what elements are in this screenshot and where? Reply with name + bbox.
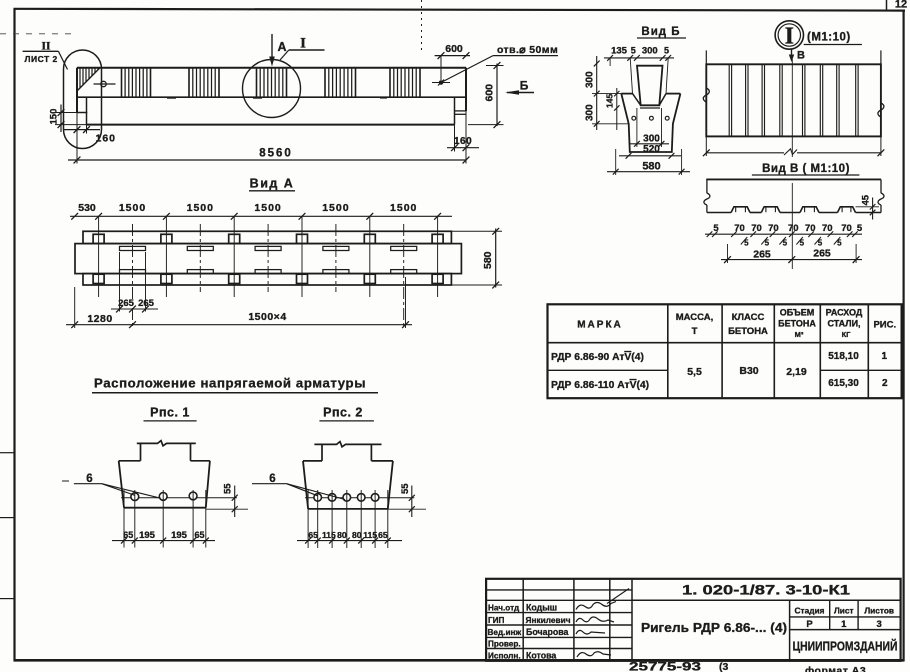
plan centerlines at fixture positions [99, 216, 438, 297]
slot pair 5 in plan [391, 246, 417, 273]
svg-text:115: 115 [322, 530, 336, 540]
fold mark dotted top middle [421, 0, 423, 52]
svg-text:1500: 1500 [322, 202, 349, 214]
svg-text:150: 150 [49, 109, 60, 125]
svg-text:I: I [785, 24, 794, 50]
svg-text:45: 45 [861, 194, 872, 205]
Rps.1 prestressing bars (3) [121, 492, 237, 501]
svg-text:5: 5 [857, 223, 863, 234]
slot pair 4 in plan [323, 246, 349, 273]
svg-text:70: 70 [768, 223, 779, 234]
svg-text:Провер.: Провер. [488, 639, 521, 648]
view arrow V (В) downward [789, 49, 805, 62]
svg-text:195: 195 [171, 530, 188, 541]
svg-text:В: В [797, 50, 805, 62]
svg-text:ЦНИИПРОМЗДАНИЙ: ЦНИИПРОМЗДАНИЙ [793, 639, 898, 654]
svg-text:12: 12 [895, 0, 907, 11]
dimension 160 at left end [63, 113, 116, 164]
svg-text:1: 1 [841, 619, 847, 630]
svg-text:1500×4: 1500×4 [248, 311, 286, 323]
svg-text:70: 70 [822, 223, 833, 234]
svg-text:195: 195 [139, 530, 156, 541]
svg-text:300: 300 [584, 71, 595, 88]
svg-text:1. 020-1/87. 3-10-К1: 1. 020-1/87. 3-10-К1 [682, 583, 851, 598]
embedded plate pair 3 (plan squares) [229, 234, 240, 283]
svg-text:5: 5 [713, 223, 719, 234]
svg-text:2: 2 [882, 378, 888, 389]
plan centerlines at slot positions [133, 224, 404, 328]
svg-text:265: 265 [118, 298, 135, 309]
Rps.1 section outline [119, 441, 210, 508]
svg-text:Расположение напрягаемой арм: Расположение напрягаемой арматуры [94, 376, 366, 391]
Rps.2 leader label 6 [252, 473, 345, 500]
corrugated key profile [707, 207, 881, 213]
svg-text:БЕТОНА: БЕТОНА [778, 319, 816, 329]
view B bottom dimension 300 [629, 108, 669, 147]
svg-text:Янкилевич: Янкилевич [526, 615, 571, 625]
svg-text:Рпс. 2: Рпс. 2 [323, 406, 363, 420]
svg-text:Исполн.: Исполн. [488, 651, 521, 660]
title block right grid [632, 600, 901, 661]
svg-text:5: 5 [664, 46, 669, 56]
svg-text:580: 580 [482, 251, 494, 269]
break marks on ribbed view edges [703, 88, 884, 117]
svg-text:РДР 6.86-90 АтV(4): РДР 6.86-90 АтV(4) [551, 352, 644, 363]
svg-text:600: 600 [445, 43, 463, 55]
svg-text:формат А3: формат А3 [805, 665, 866, 672]
svg-text:300: 300 [584, 104, 595, 121]
svg-text:5,5: 5,5 [687, 366, 702, 378]
hatch band at left end (triangle) [77, 68, 100, 91]
profile dimensions 5 70x7 5 [705, 223, 863, 237]
dimension 600 (hole to end) [435, 43, 470, 80]
svg-text:Б: Б [520, 79, 529, 93]
Rps.1 dimension 55 [206, 483, 248, 517]
Rps.2 dimension 55 [388, 483, 426, 517]
hatch band 2 on elevation [122, 68, 151, 97]
view B inner dimension 145 [605, 88, 620, 130]
svg-text:265: 265 [753, 248, 771, 260]
svg-text:А: А [277, 40, 286, 54]
svg-text:СТАЛИ,: СТАЛИ, [827, 319, 860, 329]
embedded plate pair 4 (plan squares) [297, 234, 308, 283]
dimension 265 265 under plan [111, 252, 158, 312]
svg-text:5: 5 [783, 239, 788, 248]
svg-text:160: 160 [454, 136, 472, 147]
svg-text:6: 6 [86, 473, 92, 485]
archive number below frame [629, 661, 866, 672]
svg-text:1280: 1280 [87, 313, 112, 325]
plan bottom flange [83, 274, 451, 285]
svg-text:ГИП: ГИП [488, 616, 505, 625]
stage sheet columns [795, 606, 894, 631]
svg-text:В30: В30 [739, 365, 758, 377]
svg-text:265: 265 [138, 298, 155, 309]
specification table grid [548, 304, 902, 398]
view V title [752, 163, 860, 175]
svg-text:Вид В ( М1:10): Вид В ( М1:10) [762, 163, 850, 175]
svg-text:65: 65 [123, 530, 133, 540]
svg-text:1500: 1500 [390, 202, 417, 214]
view B anchor holes (3 circles) [632, 116, 669, 120]
svg-text:отв.⌀ 50мм: отв.⌀ 50мм [497, 44, 558, 56]
svg-text:80: 80 [352, 530, 362, 540]
svg-text:518,10: 518,10 [828, 351, 859, 362]
svg-text:580: 580 [642, 160, 660, 172]
svg-text:70: 70 [751, 223, 762, 234]
svg-text:РДР 6.86-110 АтV(4): РДР 6.86-110 АтV(4) [551, 380, 649, 391]
svg-text:МАРКА: МАРКА [577, 320, 623, 331]
section arrow A with detail mark I [269, 34, 324, 67]
view B ledges and lower block [621, 94, 680, 152]
svg-text:Лист: Лист [834, 606, 854, 616]
profile right edge with break [878, 179, 884, 212]
svg-text:25775-93: 25775-93 [629, 662, 701, 672]
svg-text:Котова: Котова [526, 650, 556, 660]
svg-text:300: 300 [643, 133, 660, 144]
slot pair 3 in plan [255, 246, 281, 273]
svg-text:ЛИСТ 2: ЛИСТ 2 [25, 54, 58, 64]
svg-text:70: 70 [841, 223, 852, 234]
dimension 580 plan width [451, 228, 502, 289]
hatch band 6 on elevation [390, 68, 420, 97]
svg-text:5: 5 [765, 239, 770, 248]
svg-text:I: I [300, 36, 306, 52]
profile dimensions 265 265 [721, 244, 862, 263]
svg-text:5: 5 [744, 239, 749, 248]
svg-text:265: 265 [813, 248, 831, 260]
view B dimension 580 [607, 149, 690, 175]
svg-text:БЕТОНА: БЕТОНА [728, 326, 768, 337]
detail label II / LIST 2 [23, 41, 68, 70]
ribbed top view rectangle [706, 50, 881, 136]
profile left edge with break [704, 179, 710, 212]
Rps.2 prestressing bars (5) [305, 494, 414, 502]
svg-text:65: 65 [378, 530, 388, 540]
svg-text:2,19: 2,19 [786, 366, 807, 378]
view B left dimension 300/300 [584, 56, 628, 130]
view arrow B (Б) [505, 79, 534, 95]
embedded plate pair 5 (plan squares) [364, 234, 375, 283]
slot pair 1 in plan [120, 246, 146, 273]
svg-text:80: 80 [337, 530, 347, 540]
hatch band 4 on elevation [257, 68, 287, 97]
profile top line [706, 178, 881, 180]
svg-text:Стадия: Стадия [795, 606, 825, 616]
hatch band 3 on elevation [189, 68, 219, 97]
embedded plate pair 6 (plan squares) [432, 234, 443, 283]
Rps.1 leader label 6 [62, 473, 161, 498]
table steel values [828, 351, 888, 389]
svg-text:Нач.отд: Нач.отд [488, 604, 520, 613]
title block roles column [488, 604, 522, 661]
title block names column [526, 603, 571, 661]
svg-text:(3: (3 [719, 661, 728, 672]
svg-text:65: 65 [308, 530, 318, 540]
svg-text:70: 70 [805, 223, 816, 234]
svg-text:Ригель РДР 6.86-... (4): Ригель РДР 6.86-... (4) [641, 620, 787, 635]
svg-text:РАСХОД: РАСХОД [826, 308, 863, 318]
svg-text:Р: Р [806, 619, 813, 630]
svg-text:1: 1 [882, 351, 888, 362]
detail mark I double circle [775, 21, 803, 50]
svg-text:55: 55 [223, 483, 234, 494]
svg-text:3: 3 [877, 619, 882, 630]
svg-text:Т: Т [692, 326, 698, 337]
svg-text:МАССА,: МАССА, [676, 312, 714, 323]
svg-text:1500: 1500 [187, 202, 214, 214]
svg-text:5: 5 [800, 239, 805, 248]
plan web outline [75, 244, 461, 274]
title block left grid [486, 579, 632, 661]
svg-text:(М1:10): (М1:10) [807, 32, 851, 44]
svg-text:Бочарова: Бочарова [526, 627, 569, 637]
slope marks 1:5 [741, 237, 842, 248]
svg-text:М³: М³ [795, 330, 804, 339]
svg-text:5: 5 [818, 239, 823, 248]
svg-text:70: 70 [734, 223, 745, 234]
svg-text:Кодыш: Кодыш [526, 603, 557, 613]
embedded plate pair 2 (plan squares) [161, 234, 172, 283]
rib lines [729, 64, 858, 136]
svg-text:КЛАСС: КЛАСС [732, 312, 765, 323]
view B top dimensions 135 5 300 5 [604, 46, 674, 94]
view B stem (upper trapezoid) [637, 66, 663, 108]
detail circle mid-span [243, 60, 301, 118]
svg-text:55: 55 [400, 483, 411, 494]
svg-text:РИС.: РИС. [873, 320, 896, 331]
svg-text:145: 145 [605, 94, 615, 108]
profile dimension 45 [856, 194, 880, 219]
title block outer frame [486, 579, 900, 661]
svg-text:5: 5 [631, 46, 636, 56]
svg-text:70: 70 [788, 223, 799, 234]
hole (otv d50) dot and leader [432, 44, 558, 86]
svg-text:135: 135 [611, 46, 628, 57]
detail oval (capsule) at left end [64, 50, 102, 149]
svg-text:Вид А: Вид А [250, 177, 295, 191]
Rps.2 bottom dimensions 65 115 80 80 115 65 [297, 490, 402, 548]
svg-text:Листов: Листов [864, 606, 894, 616]
hole symbol at left end [94, 81, 116, 86]
dimension 160 at right end [447, 111, 479, 163]
heading: raspolozhenie napryagaemoy armatury [92, 376, 378, 393]
Rps.2 title [319, 406, 374, 421]
bottom dimension line with break under ribbed view [703, 136, 884, 156]
dimension 8560 overall [68, 148, 469, 164]
svg-text:520: 520 [643, 144, 660, 155]
svg-text:5: 5 [837, 239, 842, 248]
girder elevation outline [77, 68, 467, 125]
view B title [637, 26, 686, 38]
dimensions 1280 and 1500x4 [66, 277, 412, 328]
svg-text:600: 600 [484, 84, 496, 102]
dimension 600 vertical (beam height) [468, 62, 504, 128]
view B dimension 520 [619, 144, 681, 159]
svg-text:6: 6 [269, 473, 275, 485]
Rps.1 title [144, 406, 197, 421]
svg-text:Вед.инж: Вед.инж [488, 628, 522, 637]
svg-text:115: 115 [363, 530, 377, 540]
fold marks on left margin [0, 34, 72, 599]
svg-text:Вид Б: Вид Б [641, 26, 680, 38]
svg-text:8560: 8560 [259, 148, 293, 160]
stirrup marks on mid line [167, 96, 387, 98]
svg-text:ОБЪЕМ: ОБЪЕМ [780, 308, 814, 318]
scale label (M1:10) [804, 32, 862, 45]
Rps.2 section outline [303, 442, 393, 509]
svg-text:Рпс. 1: Рпс. 1 [150, 406, 190, 420]
Rps.1 bottom dimensions 65 195 195 65 [112, 490, 215, 548]
svg-text:300: 300 [642, 46, 658, 57]
table merged values [687, 365, 807, 378]
table headers [577, 308, 896, 340]
svg-text:1500: 1500 [119, 202, 146, 214]
centerline of ribbed view [791, 59, 793, 269]
hatch band 5 on elevation [325, 68, 356, 97]
svg-text:530: 530 [78, 202, 96, 214]
svg-text:615,30: 615,30 [828, 378, 859, 389]
slot pair 2 in plan [187, 246, 213, 273]
embedded plate pair 1 (plan squares) [93, 234, 104, 283]
plan top flange [83, 231, 451, 243]
plan top dimension line 530 + 1500x5 [70, 202, 452, 220]
svg-text:КГ: КГ [842, 330, 852, 339]
svg-text:1500: 1500 [254, 202, 281, 214]
view A title [249, 177, 295, 191]
dimension 150 at left end [49, 105, 88, 133]
page number cell 12 top right [887, 0, 908, 11]
signatures [576, 589, 629, 658]
svg-text:65: 65 [194, 530, 204, 540]
